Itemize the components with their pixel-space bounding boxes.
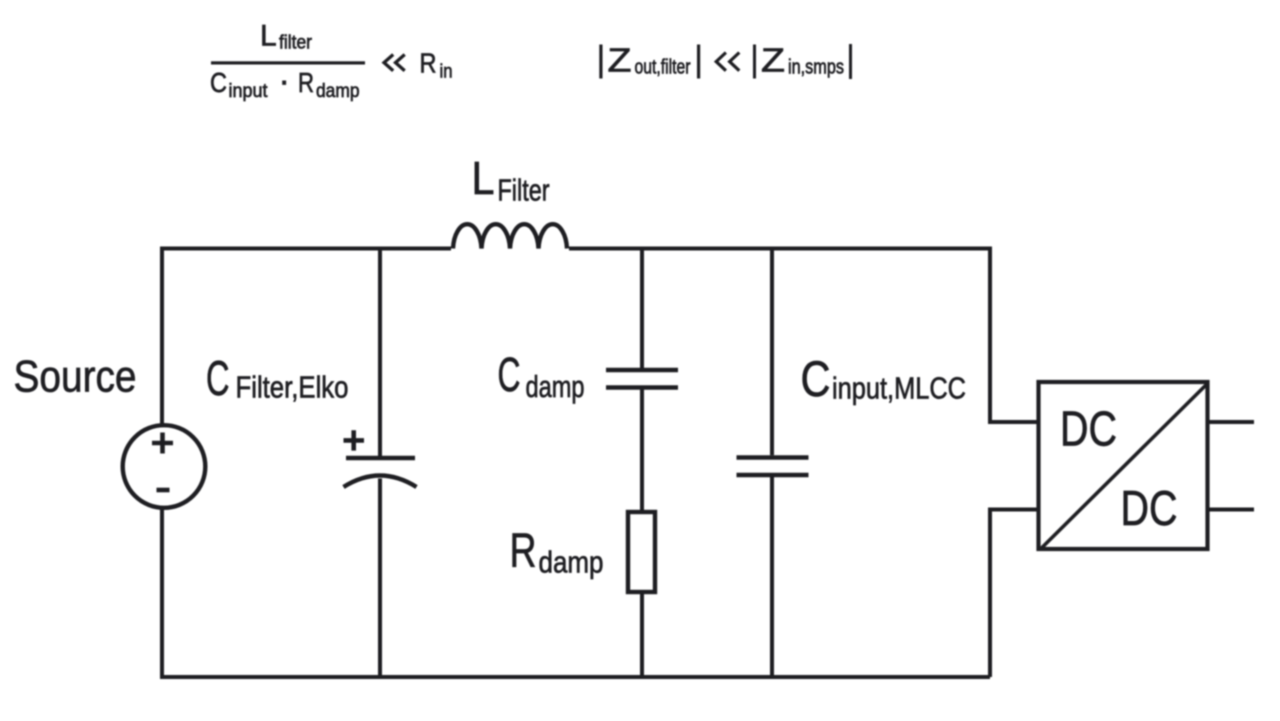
- svg-text:DC: DC: [1060, 403, 1117, 457]
- svg-text:C: C: [801, 351, 831, 407]
- wire from DC/DC bottom input: [990, 508, 1040, 512]
- source minus sign: [157, 488, 170, 493]
- svg-text:input: input: [229, 81, 269, 102]
- svg-text:Z: Z: [761, 41, 785, 78]
- svg-text:R: R: [298, 67, 314, 98]
- DC/DC converter diagonal: [1040, 384, 1208, 550]
- svg-text:L: L: [260, 20, 277, 53]
- svg-text:Filter: Filter: [498, 173, 550, 208]
- DC/DC output wire top: [1208, 420, 1254, 424]
- formula 2 abs bar 4: [849, 44, 852, 79]
- wire branch C_input lower: [770, 477, 774, 677]
- formula 2 much-less-than: [716, 53, 739, 71]
- wire to DC/DC top input: [988, 420, 1040, 424]
- wire right vertical lower: [988, 508, 992, 678]
- wire left vertical upper: [160, 247, 164, 426]
- svg-text:Z: Z: [608, 41, 632, 78]
- capacitor C_Filter,Elko curved plate: [344, 476, 417, 488]
- wire C_damp to R_damp: [640, 390, 644, 513]
- source plus sign: [152, 433, 173, 454]
- source V1 circle: [123, 425, 206, 508]
- svg-text:L: L: [472, 152, 495, 204]
- DC/DC output wire bottom: [1208, 508, 1254, 512]
- capacitor C_input,MLCC top plate: [737, 455, 809, 460]
- wire top left segment: [162, 247, 451, 251]
- capacitor C_Filter,Elko top plate: [346, 456, 415, 461]
- wire bottom: [160, 675, 990, 679]
- wire top right segment: [569, 247, 990, 251]
- wire branch C_damp upper: [640, 249, 644, 369]
- capacitor C_damp top plate: [606, 368, 678, 373]
- formula 2 abs bar 1: [599, 45, 602, 79]
- formula 2 abs bar 2: [697, 45, 700, 79]
- wire R_damp lower: [640, 592, 644, 677]
- svg-text:R: R: [420, 48, 437, 79]
- svg-text:C: C: [498, 349, 521, 402]
- wire branch C_input upper: [770, 249, 774, 456]
- wire right vertical upper: [988, 247, 992, 423]
- svg-text:in: in: [440, 62, 453, 83]
- formula 1 fraction bar: [211, 61, 365, 64]
- capacitor C_Filter,Elko plus sign: [344, 430, 365, 450]
- svg-text:C: C: [206, 352, 230, 406]
- svg-text:damp: damp: [539, 544, 604, 579]
- wire left vertical lower: [160, 509, 164, 678]
- svg-text:R: R: [510, 525, 537, 578]
- inductor L_Filter: [453, 224, 567, 248]
- formula 1 much-less-than: [384, 55, 405, 71]
- svg-text:DC: DC: [1121, 482, 1178, 536]
- formula 2 abs bar 3: [753, 45, 756, 79]
- wire branch C_Filter upper: [378, 249, 382, 457]
- svg-text:·: ·: [279, 62, 290, 100]
- svg-text:input,MLCC: input,MLCC: [832, 370, 966, 405]
- svg-text:damp: damp: [526, 369, 585, 404]
- svg-text:in,smps: in,smps: [788, 57, 844, 79]
- svg-text:C: C: [210, 67, 227, 98]
- svg-text:damp: damp: [316, 81, 360, 102]
- svg-text:Filter,Elko: Filter,Elko: [236, 370, 349, 405]
- wire branch C_Filter lower: [378, 479, 382, 678]
- svg-text:out,filter: out,filter: [635, 57, 691, 79]
- capacitor C_input,MLCC bottom plate: [737, 473, 809, 478]
- capacitor C_damp bottom plate: [606, 385, 678, 390]
- resistor R_damp body: [628, 512, 655, 592]
- DC/DC converter box: [1039, 382, 1208, 549]
- svg-text:filter: filter: [279, 33, 313, 54]
- svg-text:Source: Source: [14, 352, 137, 401]
